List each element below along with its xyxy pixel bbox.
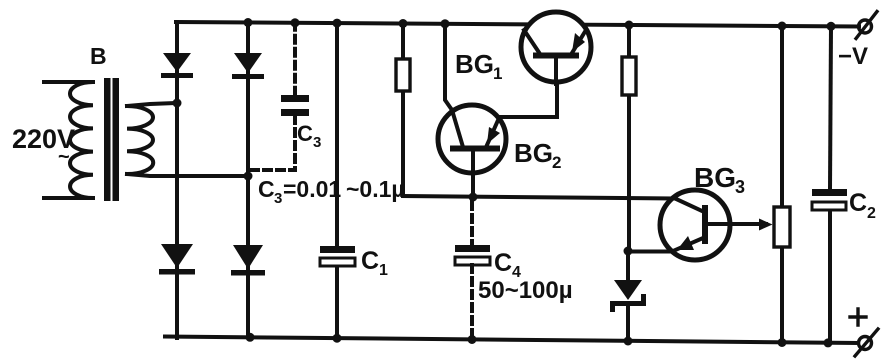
node dots top rail bbox=[244, 18, 836, 31]
svg-text:=0.01: =0.01 bbox=[283, 176, 341, 202]
zener diode DW bbox=[610, 280, 646, 312]
terminal -V bbox=[856, 12, 877, 39]
diode D4 bbox=[231, 245, 265, 276]
node secondary bottom junction bbox=[244, 172, 253, 181]
wire secondary bottom lead bbox=[127, 174, 248, 176]
label -V bbox=[838, 43, 868, 70]
capacitor C3 (dashed leads) bbox=[252, 23, 309, 170]
diode D2 bbox=[232, 53, 264, 79]
label BG1 bbox=[455, 49, 502, 83]
svg-text:3: 3 bbox=[735, 177, 745, 197]
label BG2 bbox=[514, 138, 561, 172]
wire BG2 emitter to BG1 base bbox=[499, 84, 557, 117]
node secondary top junction bbox=[173, 99, 182, 108]
terminal + bbox=[855, 329, 878, 356]
label C3 bbox=[297, 121, 321, 151]
svg-text:C: C bbox=[297, 121, 313, 146]
resistor R1 bbox=[396, 59, 410, 91]
label C4 value bbox=[478, 277, 573, 304]
wire potentiometer branch (x=782) bbox=[780, 26, 784, 343]
transformer B bbox=[44, 78, 153, 201]
svg-text:BG: BG bbox=[694, 162, 736, 193]
transistor BG3 bbox=[660, 190, 773, 260]
svg-text:C: C bbox=[849, 189, 867, 217]
node dots bottom rail bbox=[246, 333, 833, 348]
capacitor C1 bbox=[320, 246, 355, 266]
svg-text:1: 1 bbox=[379, 262, 388, 279]
diode D3 bbox=[159, 244, 195, 275]
diode D1 bbox=[161, 53, 193, 78]
label C2 bbox=[849, 189, 876, 222]
label C4 bbox=[494, 249, 521, 281]
transistor BG2 bbox=[438, 105, 506, 197]
svg-text:BG: BG bbox=[514, 138, 553, 168]
node emitter junction bbox=[624, 247, 633, 256]
wire emitter bus bbox=[628, 250, 673, 254]
svg-text:C: C bbox=[494, 249, 512, 277]
node BG2 base junction bbox=[469, 193, 478, 202]
svg-text:2: 2 bbox=[867, 205, 876, 222]
label BG3 bbox=[694, 162, 745, 197]
label 220V bbox=[12, 124, 75, 168]
wire zener lead bbox=[626, 252, 630, 342]
label C3 value bbox=[258, 176, 405, 207]
wire top rail right segment bbox=[584, 25, 859, 27]
svg-text:~: ~ bbox=[58, 146, 70, 168]
svg-text:C: C bbox=[361, 247, 379, 275]
svg-text:3: 3 bbox=[313, 134, 321, 151]
svg-text:~0.1µ: ~0.1µ bbox=[346, 176, 405, 202]
svg-text:3: 3 bbox=[274, 190, 282, 207]
svg-text:−V: −V bbox=[838, 43, 868, 70]
wire bridge arm 2 (x=248) bbox=[246, 23, 250, 338]
label + bbox=[850, 309, 866, 325]
svg-text:50~100µ: 50~100µ bbox=[478, 277, 573, 304]
wire C2 branch (x=830) bbox=[830, 26, 831, 343]
svg-text:B: B bbox=[90, 43, 107, 69]
wire secondary top lead bbox=[127, 103, 177, 106]
wire C1 branch (x=337) bbox=[335, 23, 339, 338]
wire top rail left segment bbox=[176, 22, 528, 24]
capacitor C2 bbox=[812, 189, 847, 210]
wire base bus y=196 bbox=[403, 196, 674, 199]
wire R1 branch (x=403) bbox=[401, 24, 405, 197]
wire bridge arm 1 (x=177) bbox=[175, 22, 179, 338]
svg-text:BG: BG bbox=[455, 49, 494, 79]
capacitor C4 (dashed leads) bbox=[455, 202, 490, 340]
potentiometer R3 bbox=[774, 207, 790, 247]
svg-text:1: 1 bbox=[493, 64, 502, 83]
wire BG2 collector lead bbox=[445, 24, 452, 110]
wire bottom rail bbox=[165, 337, 858, 344]
svg-text:C: C bbox=[258, 176, 275, 202]
svg-text:2: 2 bbox=[552, 153, 561, 172]
transistor BG1 bbox=[521, 12, 591, 84]
label C1 bbox=[361, 247, 388, 279]
label B bbox=[90, 43, 107, 69]
wire R2 branch (x=629) bbox=[627, 25, 631, 252]
resistor R2 bbox=[622, 57, 636, 95]
